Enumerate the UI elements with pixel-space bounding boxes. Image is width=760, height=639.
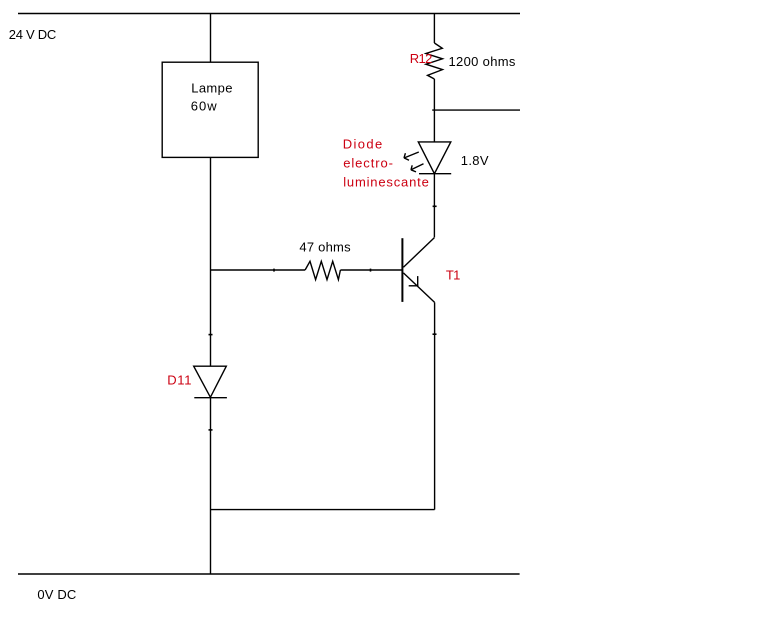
svg-text:Diode: Diode bbox=[343, 137, 383, 152]
svg-text:Lampe: Lampe bbox=[191, 81, 232, 96]
svg-text:1.8V: 1.8V bbox=[461, 153, 489, 168]
svg-text:T1: T1 bbox=[446, 268, 460, 283]
svg-text:luminescante: luminescante bbox=[343, 175, 429, 190]
svg-text:1200 ohms: 1200 ohms bbox=[449, 54, 516, 69]
svg-text:D11: D11 bbox=[167, 373, 191, 388]
svg-text:47 ohms: 47 ohms bbox=[299, 240, 351, 255]
svg-text:24 V DC: 24 V DC bbox=[9, 27, 57, 42]
svg-text:0V DC: 0V DC bbox=[37, 587, 76, 602]
svg-text:electro-: electro- bbox=[343, 156, 393, 171]
svg-text:R12: R12 bbox=[410, 51, 433, 66]
svg-text:60w: 60w bbox=[191, 98, 217, 113]
